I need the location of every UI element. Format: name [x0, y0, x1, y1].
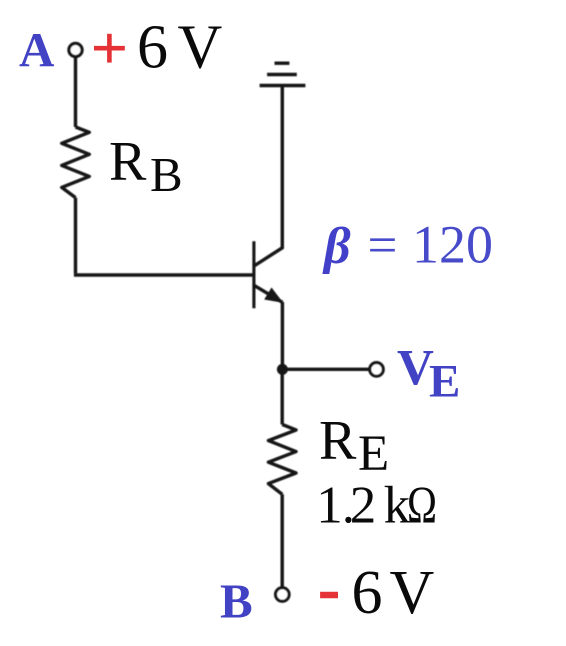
svg-text:E: E	[429, 356, 460, 408]
svg-text:V: V	[178, 14, 223, 82]
svg-text:B: B	[220, 573, 253, 628]
wire A to RB	[74, 58, 77, 128]
terminal B	[276, 588, 290, 602]
node E junction dot	[277, 364, 288, 375]
svg-text:120: 120	[412, 215, 493, 275]
emitter arrow	[265, 289, 281, 302]
transistor Q1 collector diagonal	[254, 248, 282, 266]
svg-text:R: R	[319, 410, 357, 472]
svg-text:2: 2	[350, 477, 377, 535]
wire corner to base	[74, 273, 254, 276]
emitter wire	[281, 302, 284, 369]
svg-text:=: =	[368, 217, 398, 275]
svg-text:1: 1	[316, 477, 343, 535]
transistor Q1 emitter diagonal	[254, 285, 282, 302]
svg-text:R: R	[109, 131, 147, 193]
collector wire	[281, 86, 284, 250]
svg-text:V: V	[390, 559, 435, 627]
wire RE to terminal B	[281, 494, 284, 587]
svg-text:A: A	[19, 22, 55, 77]
svg-text:β: β	[322, 218, 351, 275]
plus sign (red)	[94, 34, 125, 63]
transistor Q1 base bar	[252, 241, 255, 308]
svg-text:6: 6	[352, 559, 383, 627]
minus sign (red)	[320, 592, 338, 599]
svg-text:Ω: Ω	[407, 477, 437, 535]
wire node to VE terminal	[282, 368, 369, 371]
svg-text:B: B	[150, 147, 183, 202]
wire node to RE	[281, 369, 284, 424]
resistor RB	[62, 127, 90, 198]
terminal VE	[370, 363, 384, 377]
resistor RE	[268, 424, 296, 494]
ground (top)	[260, 84, 306, 87]
terminal A	[69, 43, 82, 56]
svg-text:6: 6	[137, 14, 168, 82]
svg-text:E: E	[358, 426, 389, 482]
wire RB to corner	[74, 198, 77, 274]
